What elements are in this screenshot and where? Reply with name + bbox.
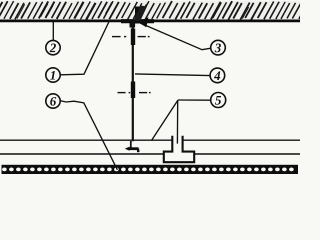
- rod bottom hook clip: [125, 141, 139, 152]
- callout circle 3: [211, 40, 226, 55]
- upper adjuster clip on rod: [131, 29, 135, 46]
- leader for callout 6: [60, 101, 117, 170]
- leader for callout 2: [52, 21, 54, 41]
- callout circle 2: [46, 40, 60, 54]
- hanger rod: [132, 22, 134, 141]
- leader for callout 5 (two branches): [178, 99, 211, 101]
- furring channel carrying line (upper ceiling line): [0, 139, 300, 141]
- leader for callout 4: [135, 74, 210, 76]
- anchor smudge in slab: [134, 6, 148, 21]
- lower adjuster clip on rod: [131, 82, 135, 99]
- callout circle 6: [46, 94, 60, 108]
- callout circle 1: [46, 68, 60, 82]
- callout circle 5: [211, 93, 226, 108]
- slab bottom edge: [0, 19, 300, 22]
- lower centerline (dash-dot): [118, 92, 151, 94]
- slab edge thickening near anchor: [121, 19, 154, 23]
- leader for callout 3 with arrowhead: [139, 23, 211, 50]
- ceiling panel face line (lower ceiling line): [0, 153, 300, 155]
- callout circle 4: [210, 68, 225, 83]
- anchor (expansion dowel in slab): [135, 7, 139, 24]
- concrete slab hatching: [0, 1, 300, 20]
- hat-channel profile (cross section): [164, 136, 194, 162]
- upper centerline (dash-dot): [112, 36, 150, 38]
- leader for callout 1: [60, 20, 110, 75]
- perforated acoustic band: [2, 165, 299, 174]
- hanger nut/washer at rod top: [130, 21, 136, 28]
